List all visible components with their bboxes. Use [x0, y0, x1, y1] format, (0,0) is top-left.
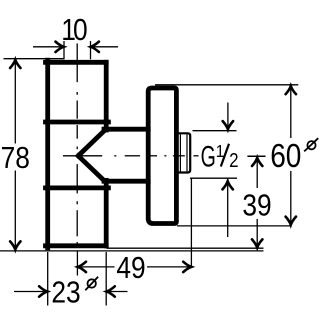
- thin extension and datum lines: [0, 41, 298, 306]
- rosette (wall flange): [148, 88, 176, 224]
- body left edge: [45, 60, 50, 248]
- dimension 49: [77, 251, 190, 276]
- 10 left extension line: [63, 41, 65, 59]
- dimension 39: [256, 158, 258, 247]
- 39 dim line upper: [256, 158, 258, 188]
- 49 left arrowhead: [78, 262, 86, 272]
- 60 top extension line: [155, 84, 298, 86]
- thread root line left: [179, 134, 181, 171]
- svg-text:0: 0: [73, 13, 88, 47]
- thread bottom extension line: [190, 177, 237, 179]
- G1/2 pointer down arrow: [227, 103, 229, 129]
- 78 bottom arrowhead: [10, 241, 20, 249]
- center line end dash right of G1/2: [247, 155, 265, 157]
- wall line right segment: [107, 247, 264, 249]
- body right edge lower segment: [104, 180, 109, 245]
- valve body outline: [46, 60, 149, 248]
- 39 bottom arrowhead: [252, 239, 262, 247]
- 60 bottom arrowhead: [286, 217, 296, 225]
- svg-text:2: 2: [229, 149, 238, 172]
- 49 dim line left: [79, 266, 115, 268]
- 39 dim line lower: [256, 219, 258, 247]
- G1/2 thread outline: [176, 133, 190, 172]
- 23 left arrow line: [14, 291, 47, 293]
- dimension 78: [14, 61, 16, 249]
- 23 right extension line: [105, 252, 107, 306]
- 49 left extension line: [76, 251, 78, 276]
- 10 left arrow line: [33, 46, 63, 48]
- body top edge: [46, 60, 107, 65]
- body right edge upper segment: [104, 62, 109, 130]
- 49 dim line right: [147, 266, 191, 268]
- valve cone lower diagonal: [78, 156, 104, 181]
- outlet pipe bottom edge: [104, 179, 148, 184]
- dimension 10: [33, 46, 118, 48]
- dimension 23: [14, 291, 128, 293]
- 10 right extension line: [90, 41, 92, 59]
- svg-text:78: 78: [1, 141, 30, 175]
- 60 bottom extension line: [177, 225, 290, 227]
- 60 dim line upper: [290, 87, 292, 139]
- 78 dim line upper: [14, 61, 16, 144]
- horizontal center line of outlet: [63, 155, 199, 157]
- outlet pipe top edge: [104, 127, 148, 132]
- thread top extension line: [193, 130, 237, 132]
- body bottom edge: [46, 243, 107, 248]
- body junction bottom line: [46, 185, 109, 190]
- svg-text:G: G: [201, 141, 216, 174]
- G1/2 pointer up arrow: [227, 182, 229, 237]
- 49 right extension line: [190, 179, 192, 267]
- diameter symbol for 60: [304, 138, 318, 151]
- 60 dim line lower: [290, 171, 292, 224]
- 23 right arrowhead: [107, 286, 115, 296]
- 78 top extension line: [4, 58, 65, 60]
- 78 dim line lower: [14, 171, 16, 249]
- full width base line: [0, 250, 264, 252]
- 23 left extension line: [47, 252, 49, 306]
- 60 top arrowhead: [286, 86, 296, 94]
- 78 top arrowhead: [10, 60, 20, 68]
- 10 right arrowhead: [91, 42, 99, 52]
- 39 top arrowhead: [252, 158, 262, 166]
- thread root line right: [186, 134, 188, 171]
- svg-text:49: 49: [116, 251, 145, 285]
- valve cone upper diagonal: [78, 131, 104, 156]
- body junction top line: [46, 120, 109, 125]
- svg-text:39: 39: [242, 189, 271, 223]
- 10 right arrow line: [91, 46, 118, 48]
- 23 left arrowhead: [39, 286, 47, 296]
- svg-text:60: 60: [270, 138, 301, 175]
- diameter symbol for 23: [85, 277, 98, 291]
- 10 left arrowhead: [56, 42, 64, 52]
- dimension 60: [290, 87, 292, 225]
- 49 right arrowhead: [183, 262, 191, 272]
- vertical center line of valve body: [76, 43, 78, 244]
- svg-text:23: 23: [51, 276, 80, 310]
- 23 right arrow line: [107, 291, 127, 293]
